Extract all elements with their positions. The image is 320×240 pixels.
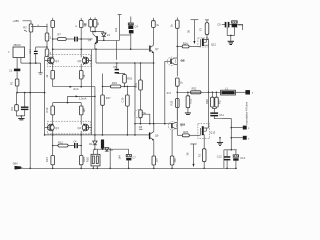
svg-text:C13: C13 bbox=[240, 156, 245, 160]
capacitor C1 bbox=[9, 69, 20, 80]
resistor R11a bbox=[45, 71, 55, 87]
annotation 36V arrow top bbox=[186, 20, 198, 44]
wire Q5 emitter bus bbox=[98, 40, 120, 42]
wire right center column lower bbox=[177, 86, 179, 120]
wire R8 join bbox=[91, 31, 104, 33]
svg-text:C5: C5 bbox=[113, 65, 117, 69]
resistor R7 bbox=[52, 33, 74, 41]
svg-text:Q8: Q8 bbox=[181, 58, 185, 62]
diff pair dashed box Q1 Q2 bbox=[48, 55, 91, 67]
svg-text:78L5C: 78L5C bbox=[13, 43, 21, 47]
resistor R26 bbox=[205, 92, 214, 107]
capacitor C10 bbox=[120, 86, 129, 134]
svg-text:Q2: Q2 bbox=[78, 59, 82, 63]
svg-text:R22: R22 bbox=[192, 86, 197, 90]
wire Q4 collector down bbox=[80, 131, 82, 135]
transistor Q3 bbox=[48, 124, 60, 132]
resistor R18b Q9 emitter bbox=[152, 156, 159, 168]
wire C5 column bbox=[115, 41, 117, 60]
svg-text:R7: R7 bbox=[58, 33, 62, 37]
annotation 1.4V measure line bbox=[114, 15, 122, 41]
capacitor C4 electrolytic bbox=[128, 17, 138, 30]
wire C4 to node bbox=[120, 34, 131, 36]
transistor Q1 bbox=[45, 56, 60, 65]
resistor R12 lower right column bbox=[79, 103, 86, 125]
resistor R21b center bbox=[153, 63, 155, 124]
diode Z1 bbox=[102, 32, 111, 41]
resistor R13 bbox=[45, 135, 55, 168]
svg-text:R20: R20 bbox=[127, 76, 132, 80]
speaker label vertical bbox=[245, 102, 248, 125]
diode D1 bbox=[89, 141, 97, 149]
wire output node line bbox=[177, 92, 221, 94]
wire Q3 collector down bbox=[52, 131, 54, 135]
resistor R2 bbox=[23, 24, 33, 32]
fuse F2 bbox=[198, 149, 206, 169]
transistor Q4 bbox=[78, 124, 89, 132]
svg-text:Q9: Q9 bbox=[155, 133, 159, 137]
wire diff pair collector join bbox=[52, 48, 149, 50]
ground open stub bbox=[38, 63, 42, 74]
svg-text:R17: R17 bbox=[106, 96, 111, 100]
capacitor C13 electrolytic bbox=[233, 150, 245, 169]
resistor R5b top of left diff column bbox=[45, 18, 54, 58]
svg-text:Q7: Q7 bbox=[155, 47, 159, 51]
wire center column bbox=[134, 63, 136, 135]
svg-text:R27: R27 bbox=[218, 99, 222, 104]
resistor R12 horizontal bbox=[52, 140, 74, 147]
capacitor C11 bbox=[210, 112, 231, 118]
wire Q2 emitter to R11b bbox=[80, 64, 82, 71]
wire bottom supply rail bbox=[20, 168, 236, 170]
wire speaker return bracket bbox=[222, 119, 232, 150]
resistor R23 vertical bbox=[186, 92, 192, 112]
resistor R10 right column top bbox=[170, 18, 180, 77]
svg-text:-38V: -38V bbox=[12, 161, 18, 165]
diff pair dashed box Q3 Q4 bbox=[48, 121, 91, 134]
svg-text:Q12: Q12 bbox=[211, 42, 216, 46]
wire R5 to R4 bbox=[46, 41, 48, 49]
svg-text:R10: R10 bbox=[45, 107, 49, 112]
wire cap pair to ground bbox=[227, 27, 234, 41]
capacitor C8 label bbox=[139, 125, 143, 129]
annotation 36V arrow bottom bbox=[186, 144, 197, 167]
capacitor C14 bbox=[28, 47, 38, 63]
svg-text:+38V: +38V bbox=[13, 19, 20, 23]
wire zobel join bbox=[212, 107, 216, 112]
thermistor R th circled bbox=[135, 110, 150, 124]
svg-text:R21: R21 bbox=[189, 98, 193, 103]
resistor R24 bbox=[177, 41, 201, 48]
resistor R11 lower left column bbox=[45, 103, 55, 125]
svg-text:Q13: Q13 bbox=[210, 130, 215, 134]
wire terminal 2 link bbox=[231, 127, 243, 129]
transistor Q9 bbox=[149, 124, 159, 156]
wire tail upper pair with 2mA annotation bbox=[53, 86, 95, 97]
transistor Q2 bbox=[78, 56, 92, 65]
resistor R14 bbox=[79, 135, 86, 168]
speaker terminal 3 bbox=[243, 136, 250, 141]
resistor R11b bbox=[79, 71, 86, 87]
resistor R5 bbox=[45, 33, 52, 41]
transistor Q5 bbox=[88, 32, 98, 50]
wire bias to rail bbox=[109, 149, 111, 168]
resistor R1 bbox=[10, 79, 19, 93]
svg-text:R19: R19 bbox=[112, 81, 117, 85]
svg-text:C7: C7 bbox=[132, 156, 136, 160]
svg-text:Q4: Q4 bbox=[78, 126, 82, 130]
resistor R8b bbox=[93, 18, 100, 32]
capacitor C6 electrolytic vertical bbox=[101, 140, 104, 149]
svg-text:R8: R8 bbox=[83, 23, 87, 27]
wire Q7 emitter line bbox=[96, 62, 154, 64]
wire Q1 emitter to R11a bbox=[52, 64, 54, 71]
svg-text:R2: R2 bbox=[23, 26, 27, 30]
svg-text:Q1: Q1 bbox=[55, 59, 59, 63]
wire R2 top to R5 bbox=[31, 24, 47, 33]
ground input bbox=[18, 115, 24, 120]
wire Q5 source column bbox=[95, 49, 97, 63]
wire Q8 base column bbox=[164, 61, 166, 123]
wire Q12 source to output column bbox=[208, 40, 210, 93]
svg-text:4n7: 4n7 bbox=[167, 91, 172, 95]
svg-text:C10: C10 bbox=[120, 97, 124, 102]
capacitor C5 bbox=[113, 63, 124, 75]
resistor R22 bbox=[191, 86, 202, 94]
inductor L1 bbox=[221, 87, 246, 95]
svg-text:R5: R5 bbox=[45, 23, 49, 27]
transistor Q6 dark body bbox=[129, 30, 134, 49]
wire terminal 3 link bbox=[219, 137, 243, 139]
wire Q9 bus bbox=[135, 123, 169, 125]
wire F1 to Q12 drain bbox=[207, 37, 209, 40]
svg-text:R16: R16 bbox=[85, 157, 89, 162]
svg-text:C1: C1 bbox=[9, 69, 13, 73]
transistor Q10 vbe dashed bbox=[168, 122, 185, 130]
capacitor C16 electrolytic bbox=[232, 21, 244, 30]
svg-text:C9: C9 bbox=[217, 23, 221, 27]
wire Q13 source to F2 bbox=[203, 135, 205, 149]
terminal -38V arrow bbox=[15, 166, 24, 170]
resistor R19b Q10 emitter bbox=[170, 130, 177, 169]
svg-text:1.5mA: 1.5mA bbox=[79, 97, 87, 101]
wire bias node line bbox=[94, 148, 129, 150]
capacitor C9 bbox=[217, 22, 231, 28]
resistor R27 bbox=[215, 92, 222, 107]
resistor R6 top of right diff column bbox=[74, 18, 88, 58]
resistor R20 bbox=[123, 75, 133, 87]
resistor R22b right column bbox=[170, 99, 180, 136]
wire base column right bbox=[87, 50, 91, 135]
resistor R8a bbox=[83, 18, 92, 32]
wire IC pin to T stub bbox=[21, 62, 41, 64]
svg-text:C8: C8 bbox=[139, 125, 143, 129]
svg-text:150: 150 bbox=[155, 158, 159, 163]
speaker terminal 2 bbox=[243, 126, 250, 131]
wire bottom right cap loop bbox=[224, 149, 237, 168]
wire midline input node bbox=[16, 92, 45, 94]
resistor R25 bbox=[177, 122, 200, 137]
resistor R9 bbox=[152, 18, 160, 45]
svg-text:D1: D1 bbox=[89, 142, 93, 146]
capacitor C7 electrolytic bbox=[126, 149, 136, 168]
IC box regulator 78L5C bbox=[8, 43, 25, 68]
wire left center column bbox=[102, 74, 104, 96]
diode D2 bbox=[105, 148, 114, 152]
wire tail lower pair bbox=[53, 96, 81, 103]
svg-text:R23: R23 bbox=[170, 100, 174, 105]
wire output column to Q13 drain bbox=[208, 92, 210, 128]
capacitor C2 bbox=[74, 37, 92, 42]
capacitor C3 input bbox=[21, 93, 29, 116]
ground R23 bbox=[185, 113, 191, 115]
wire main feedback line bbox=[44, 134, 149, 136]
svg-text:Q3: Q3 bbox=[55, 126, 59, 130]
ground top right bbox=[228, 41, 234, 45]
svg-text:1k4: 1k4 bbox=[118, 155, 122, 160]
node +38V supply label bbox=[13, 19, 20, 23]
svg-text:2mA: 2mA bbox=[73, 87, 79, 91]
transistor Q12 MOSFET bbox=[198, 38, 217, 47]
svg-text:C11: C11 bbox=[219, 113, 224, 117]
svg-text:1k5: 1k5 bbox=[82, 108, 86, 113]
svg-text:Q11: Q11 bbox=[180, 122, 185, 126]
wire tail lower with 1.5mA annotation bbox=[68, 95, 96, 141]
resistor R4 bbox=[45, 49, 51, 57]
svg-text:C12: C12 bbox=[217, 154, 222, 158]
resistor R22a right column bbox=[167, 78, 184, 95]
svg-text:R3: R3 bbox=[10, 107, 14, 111]
transistor Q13 MOSFET bbox=[198, 124, 216, 139]
svg-text:150: 150 bbox=[173, 158, 177, 163]
svg-text:C14: C14 bbox=[28, 48, 32, 53]
transistor Q7 bbox=[149, 45, 159, 63]
svg-text:R1: R1 bbox=[10, 81, 14, 85]
svg-text:C4: C4 bbox=[135, 25, 139, 29]
resistor R17 bbox=[101, 95, 111, 135]
resistor R3 bbox=[10, 93, 25, 116]
node junction C14 tap bbox=[36, 46, 48, 48]
svg-text:reproduktor 4-8 ohm: reproduktor 4-8 ohm bbox=[245, 102, 248, 125]
trimmer R16 box bbox=[85, 149, 100, 168]
capacitor C6h bbox=[73, 140, 82, 149]
annotation 1.4V bias bbox=[118, 155, 122, 160]
transistor Q8 vbe dashed bbox=[165, 57, 185, 65]
resistor R21a center bbox=[134, 63, 143, 110]
ground speaker bbox=[217, 138, 223, 146]
svg-text:R21: R21 bbox=[134, 82, 138, 87]
annotation 4R9 bbox=[181, 58, 186, 62]
node -38V supply label bbox=[12, 161, 18, 165]
svg-text:R25: R25 bbox=[183, 130, 188, 134]
fuse F1 bbox=[199, 20, 210, 40]
svg-text:R13: R13 bbox=[45, 157, 49, 162]
speaker terminal 1 bbox=[245, 90, 253, 95]
resistor R19 bbox=[103, 81, 136, 88]
wire base column left bbox=[45, 57, 49, 135]
capacitor C12 bbox=[217, 150, 230, 169]
wire R2 bottom long left column bbox=[29, 32, 31, 168]
svg-text:1k4: 1k4 bbox=[114, 27, 118, 32]
wire +38V feed bbox=[23, 21, 32, 24]
